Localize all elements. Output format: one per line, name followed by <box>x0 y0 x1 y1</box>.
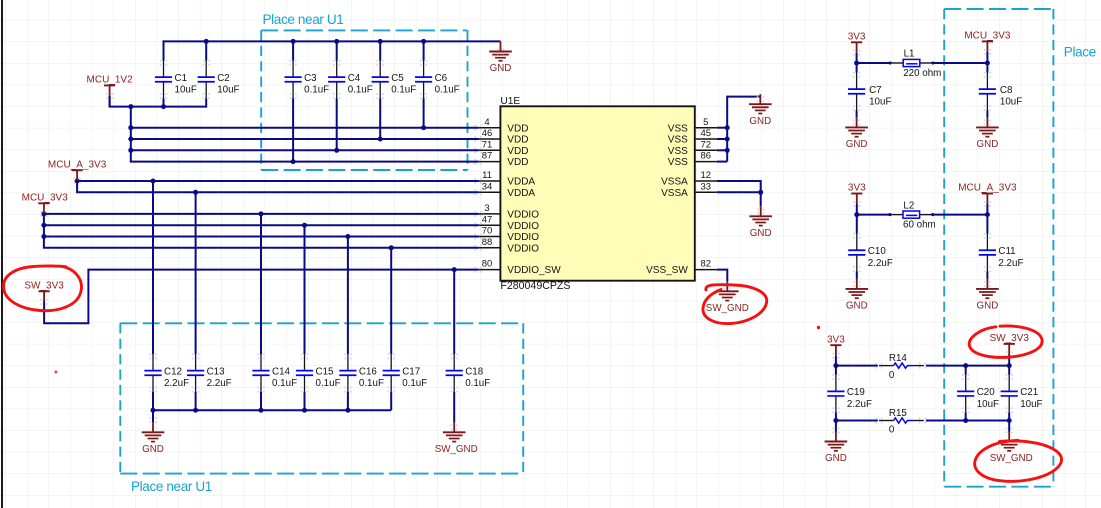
resistor R14 <box>875 353 926 381</box>
pin 46 (VDD) of U1 <box>474 128 528 146</box>
wire C13 supply drop <box>195 192 197 354</box>
junction MCU_3V3/C8 <box>985 61 990 66</box>
capacitor C14 <box>252 353 297 393</box>
pin 3 (VDDIO) of U1 <box>474 203 539 221</box>
capacitor C21 <box>1001 374 1043 414</box>
svg-text:MCU_3V3: MCU_3V3 <box>964 31 1011 42</box>
svg-text:87: 87 <box>482 151 493 162</box>
wire C16 supply drop <box>347 237 349 355</box>
wire C21 bottom lead <box>1008 413 1010 421</box>
svg-text:10uF: 10uF <box>977 399 999 410</box>
wire VSS pin86 connector <box>717 161 727 163</box>
svg-text:2.2uF: 2.2uF <box>868 258 893 269</box>
wire MCU_1V2 vertical from power port <box>109 96 111 107</box>
annotation dot (left) <box>55 371 58 374</box>
junction MCU_1V2 bus <box>128 104 133 109</box>
wire GND top bus <box>164 40 501 42</box>
wire C11 bottom lead <box>986 272 988 279</box>
svg-text:0.1uF: 0.1uF <box>316 378 341 389</box>
svg-text:SW_GND: SW_GND <box>990 453 1033 464</box>
svg-text:C13: C13 <box>207 366 226 377</box>
wire VSSA pin33 connector <box>717 191 761 193</box>
svg-text:GND: GND <box>846 139 868 150</box>
junction C4 at GND bus <box>334 39 339 44</box>
svg-text:Place near U1: Place near U1 <box>131 479 212 494</box>
junction C15 at GND bus <box>302 408 307 413</box>
capacitor C4 <box>328 60 373 99</box>
pin 88 (VDDIO) of U1 <box>474 237 539 255</box>
op-amp U1E (MCU F280049CPZS body) <box>500 96 694 292</box>
junction pin3 row <box>41 211 46 216</box>
svg-text:2.2uF: 2.2uF <box>164 378 189 389</box>
wire VDDIO pin3 row <box>44 213 479 215</box>
svg-text:C15: C15 <box>316 366 335 377</box>
svg-text:VSSA: VSSA <box>661 177 688 188</box>
svg-text:GND: GND <box>750 228 772 239</box>
pin 71 (VDD) of U1 <box>474 139 528 157</box>
junction C14 drop <box>259 211 264 216</box>
annotation circle around SW_3V3 (left) <box>3 266 81 311</box>
wire C11 top lead <box>986 215 988 234</box>
wire L2 to MCU_A_3V3 <box>933 214 988 216</box>
svg-text:12: 12 <box>701 170 712 181</box>
junction pin46 row <box>128 137 133 142</box>
pin 70 (VDDIO) of U1 <box>474 226 539 244</box>
wire C7 bottom lead <box>856 110 858 117</box>
junction SW_3V3/C21 <box>1007 363 1012 368</box>
wire VSS_SW connector <box>717 270 728 282</box>
junction C21 bottom <box>1007 418 1012 423</box>
ground GND (bottom bank) <box>142 410 165 455</box>
capacitor C5 <box>372 60 417 99</box>
svg-text:VDDIO: VDDIO <box>507 221 539 232</box>
svg-text:VDD: VDD <box>507 146 528 157</box>
svg-text:Place: Place <box>1064 45 1096 60</box>
pin 45 (VSS) of U1 <box>668 128 717 146</box>
wire VSS pin5 connector <box>717 127 727 129</box>
svg-text:L1: L1 <box>904 49 915 60</box>
junction C13 drop at pin34 row <box>193 190 198 195</box>
svg-text:C11: C11 <box>998 246 1015 257</box>
junction 3V3 bottom <box>833 363 838 368</box>
wire VDD pin87 row <box>130 161 479 163</box>
svg-text:0.1uF: 0.1uF <box>402 378 427 389</box>
wire C5 top lead <box>379 40 381 60</box>
wire MCU_1V2 horizontal rail <box>109 106 207 108</box>
svg-text:L2: L2 <box>903 200 914 211</box>
svg-text:C5: C5 <box>391 73 404 84</box>
inductor L2 <box>888 200 935 230</box>
wire VSS pin72 connector <box>717 149 727 151</box>
svg-text:C8: C8 <box>1000 85 1013 96</box>
power port MCU_3V3 <box>22 192 69 217</box>
svg-text:0.1uF: 0.1uF <box>391 85 416 96</box>
junction C18 drop <box>452 267 457 272</box>
svg-text:11: 11 <box>482 170 492 181</box>
pin 4 (VDD) of U1 <box>474 117 528 135</box>
power port SW_3V3 <box>24 280 64 305</box>
wire C8 bottom lead <box>986 110 988 117</box>
svg-text:10uF: 10uF <box>1020 399 1042 410</box>
svg-text:MCU_1V2: MCU_1V2 <box>87 75 134 86</box>
svg-text:C7: C7 <box>869 85 882 96</box>
annotation circle around SW_3V3 (right) <box>969 326 1042 357</box>
junction C2 at GND bus <box>204 39 209 44</box>
junction C4 at VDD row <box>334 148 339 153</box>
svg-text:10uF: 10uF <box>175 85 197 96</box>
svg-text:SW_GND: SW_GND <box>706 303 749 314</box>
svg-text:10uF: 10uF <box>1000 97 1022 108</box>
wire C19 lead <box>835 366 837 375</box>
pin 86 (VSS) of U1 <box>668 151 717 169</box>
svg-text:0: 0 <box>889 370 895 381</box>
svg-text:C4: C4 <box>348 73 361 84</box>
svg-text:Place near U1: Place near U1 <box>263 12 344 27</box>
capacitor C15 <box>296 353 341 393</box>
svg-text:46: 46 <box>482 128 493 139</box>
svg-text:VSS_SW: VSS_SW <box>646 265 688 276</box>
pin 34 (VDDA) of U1 <box>474 181 535 199</box>
svg-text:MCU_3V3: MCU_3V3 <box>22 192 69 203</box>
wire GND bus to R15 <box>836 420 878 422</box>
sheet border <box>1 0 3 508</box>
svg-text:0.1uF: 0.1uF <box>348 85 373 96</box>
svg-text:C6: C6 <box>435 73 448 84</box>
svg-text:0.1uF: 0.1uF <box>465 378 490 389</box>
wire C12 supply drop <box>152 181 154 354</box>
svg-text:C12: C12 <box>164 366 182 377</box>
pin 33 (VSSA) of U1 <box>661 181 717 199</box>
junction pin71 row <box>128 148 133 153</box>
wire C15 bottom lead <box>304 392 306 410</box>
junction C6 at VDD row <box>421 125 426 130</box>
wire VDD pin4 row <box>131 127 479 129</box>
capacitor C6 <box>415 60 460 99</box>
svg-text:MCU_A_3V3: MCU_A_3V3 <box>958 183 1017 194</box>
pin 5 (VSS) of U1 <box>668 117 717 135</box>
svg-text:SW_GND: SW_GND <box>435 444 478 455</box>
svg-text:10uF: 10uF <box>217 85 239 96</box>
svg-text:C21: C21 <box>1020 387 1038 398</box>
pin 72 (VSS) of U1 <box>668 139 717 157</box>
svg-text:VDD: VDD <box>507 157 528 168</box>
pin 87 (VDD) of U1 <box>474 151 528 169</box>
ground SW_GND (C18) <box>435 422 478 455</box>
placement box right (Place) <box>944 9 1096 487</box>
wire R14 to SW_3V3 <box>926 365 1009 367</box>
svg-text:47: 47 <box>482 214 493 225</box>
junction C5 at VDD row <box>378 137 383 142</box>
junction C19 bottom <box>833 418 838 423</box>
wire 3V3 to L1 <box>857 62 891 64</box>
junction C12 drop at pin11 row <box>151 179 156 184</box>
svg-text:GND: GND <box>825 453 847 464</box>
wire bottom GND bus <box>153 409 391 411</box>
wire MCU_1V2 vertical bus <box>130 107 132 162</box>
svg-text:VDDIO: VDDIO <box>507 243 539 254</box>
wire L1 to MCU_3V3 <box>933 62 988 64</box>
svg-text:72: 72 <box>701 139 712 150</box>
svg-text:C18: C18 <box>465 366 484 377</box>
svg-text:C2: C2 <box>217 73 230 84</box>
svg-text:C16: C16 <box>359 366 378 377</box>
annotation dot (right) <box>817 326 820 329</box>
svg-text:GND: GND <box>846 301 868 312</box>
wire C7 top lead <box>856 63 858 73</box>
wire C20 bottom lead <box>965 413 967 421</box>
svg-text:SW_3V3: SW_3V3 <box>989 333 1029 344</box>
junction 3V3/C7 <box>854 61 859 66</box>
svg-text:R14: R14 <box>889 353 908 364</box>
svg-text:C17: C17 <box>402 366 420 377</box>
wire VDDIO pin70 row <box>44 236 479 238</box>
ground SW_GND (C21) <box>990 421 1033 465</box>
svg-text:VDDIO: VDDIO <box>507 232 539 243</box>
svg-text:220 ohm: 220 ohm <box>903 68 941 79</box>
junction C12 at GND bus <box>151 408 156 413</box>
junction MCU_A_3V3/C11 <box>985 212 990 217</box>
svg-text:10uF: 10uF <box>869 97 891 108</box>
wire C1 top lead <box>163 40 165 60</box>
junction C6 at GND bus <box>421 39 426 44</box>
junction pin70 row <box>41 234 46 239</box>
wire C19 bottom lead <box>835 413 837 421</box>
junction C17 drop <box>389 245 394 250</box>
svg-text:VDD: VDD <box>507 123 528 134</box>
junction C20 bottom <box>963 418 968 423</box>
capacitor C10 <box>848 233 893 273</box>
svg-text:VDDA: VDDA <box>507 177 535 188</box>
wire VSS pin45 connector <box>717 138 727 140</box>
capacitor C11 <box>979 233 1024 273</box>
wire C14 supply drop <box>260 214 262 354</box>
wire MCU_3V3 vertical bus <box>43 213 45 248</box>
capacitor C3 <box>285 60 330 99</box>
svg-text:VDDA: VDDA <box>507 188 535 199</box>
svg-text:GND: GND <box>977 301 999 312</box>
wire C21 lead <box>1008 366 1010 375</box>
junction pin47 row <box>41 223 46 228</box>
wire 3V3 to R14 <box>836 365 878 367</box>
svg-text:R15: R15 <box>889 408 908 419</box>
wire C2 bottom lead <box>205 98 207 107</box>
wire C6 bottom lead to VDD row <box>423 98 425 127</box>
capacitor C16 <box>339 353 384 393</box>
wire C13 bottom lead <box>195 392 197 410</box>
svg-text:60 ohm: 60 ohm <box>903 219 936 230</box>
placement box top (Place near U1) <box>261 12 467 170</box>
svg-text:0: 0 <box>889 425 895 436</box>
wire C14 bottom lead <box>260 392 262 410</box>
wire C17 supply drop <box>390 248 392 354</box>
capacitor C20 <box>957 374 999 414</box>
wire C16 bottom lead <box>347 392 349 410</box>
svg-text:GND: GND <box>749 116 771 127</box>
svg-text:4: 4 <box>484 117 489 128</box>
svg-text:80: 80 <box>482 259 493 270</box>
svg-text:VSS: VSS <box>668 123 688 134</box>
wire C4 bottom lead to VDD row <box>336 98 338 150</box>
svg-text:F280049CPZS: F280049CPZS <box>500 280 570 292</box>
junction VSS pin5 <box>725 125 730 130</box>
power port MCU_A_3V3 (right) <box>958 183 1017 215</box>
svg-text:3V3: 3V3 <box>848 31 866 42</box>
svg-text:3: 3 <box>484 203 489 214</box>
svg-text:82: 82 <box>701 259 712 270</box>
wire C12 bottom lead <box>152 392 154 410</box>
svg-text:2.2uF: 2.2uF <box>207 378 232 389</box>
svg-text:C1: C1 <box>175 73 188 84</box>
svg-text:VDDIO_SW: VDDIO_SW <box>507 265 561 276</box>
svg-text:88: 88 <box>482 237 493 248</box>
wire C8 top lead <box>986 63 988 73</box>
resistor R15 <box>875 408 926 436</box>
junction VSS pin72 <box>725 148 730 153</box>
wire C2 top lead <box>205 40 207 60</box>
svg-text:GND: GND <box>977 139 999 150</box>
svg-text:3V3: 3V3 <box>827 334 845 345</box>
power port MCU_1V2 <box>87 75 134 107</box>
wire 3V3 to L2 <box>857 214 890 216</box>
wire C4 top lead <box>336 40 338 60</box>
ground GND (C11) <box>976 279 999 312</box>
wire SW_3V3 hook <box>44 270 479 324</box>
svg-text:71: 71 <box>482 139 493 150</box>
svg-text:C14: C14 <box>272 366 291 377</box>
junction C16 drop <box>345 234 350 239</box>
ground GND (C19) <box>825 421 848 465</box>
junction C15 drop <box>302 223 307 228</box>
svg-text:33: 33 <box>701 181 712 192</box>
ground GND (VSS) <box>749 94 772 127</box>
wire VSSA pin12 connector <box>717 181 761 206</box>
wire C6 top lead <box>423 40 425 60</box>
capacitor C8 <box>979 72 1022 112</box>
junction VSS pin45 <box>725 137 730 142</box>
svg-text:VSS: VSS <box>668 135 688 146</box>
junction C16 at GND bus <box>345 408 350 413</box>
capacitor C18 <box>446 353 491 393</box>
svg-text:GND: GND <box>490 63 512 74</box>
wire R15 to SW_GND <box>926 420 1009 422</box>
capacitor C1 <box>155 60 197 99</box>
wire C18 supply drop <box>453 270 455 354</box>
ground GND (top decoupling bus) <box>489 41 512 74</box>
svg-text:C3: C3 <box>304 73 317 84</box>
annotation circle around SW_GND (bottom right) <box>975 440 1062 481</box>
capacitor C13 <box>187 353 232 393</box>
pin 80 (VDDIO_SW) of U1 <box>474 259 561 277</box>
wire C3 bottom lead to VDD row <box>292 98 294 161</box>
svg-text:0.1uF: 0.1uF <box>435 85 460 96</box>
svg-text:2.2uF: 2.2uF <box>847 399 872 410</box>
junction C1 at rail <box>161 104 166 109</box>
junction 3V3/C10 <box>854 212 859 217</box>
ground GND (C10) <box>846 279 869 312</box>
ground GND (C7) <box>845 117 868 150</box>
svg-text:45: 45 <box>701 128 712 139</box>
wire C20 lead <box>965 366 967 375</box>
wire C10 top lead <box>856 215 858 234</box>
svg-text:U1E: U1E <box>500 96 520 107</box>
wire VDDIO pin88 row <box>43 247 479 249</box>
junction VSSA <box>758 190 763 195</box>
wire VSS vertical bus <box>727 97 760 162</box>
svg-text:0.1uF: 0.1uF <box>304 85 329 96</box>
svg-text:VDD: VDD <box>507 135 528 146</box>
ground SW_GND (VSS_SW) <box>706 281 749 314</box>
wire C3 top lead <box>292 40 294 60</box>
junction pin4 row <box>128 125 133 130</box>
wire VDDA pin11 row <box>77 180 479 182</box>
svg-text:VSSA: VSSA <box>661 188 688 199</box>
wire C15 supply drop <box>304 225 306 354</box>
power port SW_3V3 (right) <box>989 333 1029 366</box>
placement box bottom (Place near U1) <box>120 323 523 494</box>
capacitor C12 <box>144 353 189 393</box>
pin 82 (VSS_SW) of U1 <box>646 259 717 277</box>
power port MCU_3V3 (right) <box>964 31 1011 64</box>
ground GND (C8) <box>976 117 999 150</box>
junction C3 at GND bus <box>291 39 296 44</box>
svg-text:SW_3V3: SW_3V3 <box>24 280 64 291</box>
wire C18 bottom lead to SW_GND <box>453 392 455 423</box>
svg-text:GND: GND <box>142 444 164 455</box>
wire C17 bottom lead <box>390 392 392 410</box>
svg-text:3V3: 3V3 <box>848 183 866 194</box>
svg-text:70: 70 <box>482 226 493 237</box>
junction C13 at GND bus <box>193 408 198 413</box>
wire MCU_A_3V3 corner to pin34 row <box>77 180 479 192</box>
svg-text:C10: C10 <box>868 246 887 257</box>
pin 47 (VDDIO) of U1 <box>474 214 539 232</box>
wire C1 bottom lead <box>163 98 165 106</box>
svg-text:C20: C20 <box>977 387 996 398</box>
svg-text:34: 34 <box>482 181 493 192</box>
power port 3V3 (bottom) <box>827 334 845 365</box>
pin 12 (VSSA) of U1 <box>661 170 717 188</box>
junction MCU_A_3V3 attach <box>75 179 80 184</box>
wire VDD pin46 row <box>131 138 479 140</box>
wire C10 bottom lead <box>856 272 858 279</box>
inductor L1 <box>889 49 942 79</box>
annotation circle around SW_GND (VSS_SW) <box>703 285 767 324</box>
capacitor C19 <box>827 374 872 414</box>
svg-text:0.1uF: 0.1uF <box>359 378 384 389</box>
power port 3V3 (row2) <box>848 183 866 215</box>
capacitor C2 <box>198 60 240 99</box>
power port MCU_A_3V3 <box>48 159 107 184</box>
svg-text:5: 5 <box>703 117 708 128</box>
pin 11 (VDDA) of U1 <box>474 170 535 188</box>
svg-text:VDDIO: VDDIO <box>507 210 539 221</box>
svg-text:VSS: VSS <box>668 157 688 168</box>
svg-text:VSS: VSS <box>668 146 688 157</box>
svg-text:C19: C19 <box>847 387 865 398</box>
svg-text:2.2uF: 2.2uF <box>998 258 1023 269</box>
capacitor C17 <box>383 353 428 393</box>
wire VDD pin71 row <box>130 149 479 151</box>
wire C5 bottom lead to VDD row <box>379 98 381 139</box>
wire VDDIO pin47 row <box>44 224 479 226</box>
ground GND (VSSA) <box>749 206 772 239</box>
power port 3V3 (row1) <box>848 31 866 63</box>
svg-text:MCU_A_3V3: MCU_A_3V3 <box>48 159 107 170</box>
svg-text:0.1uF: 0.1uF <box>272 378 297 389</box>
junction C14 at GND bus <box>259 408 264 413</box>
capacitor C7 <box>848 72 891 112</box>
junction C5 at GND bus <box>378 39 383 44</box>
